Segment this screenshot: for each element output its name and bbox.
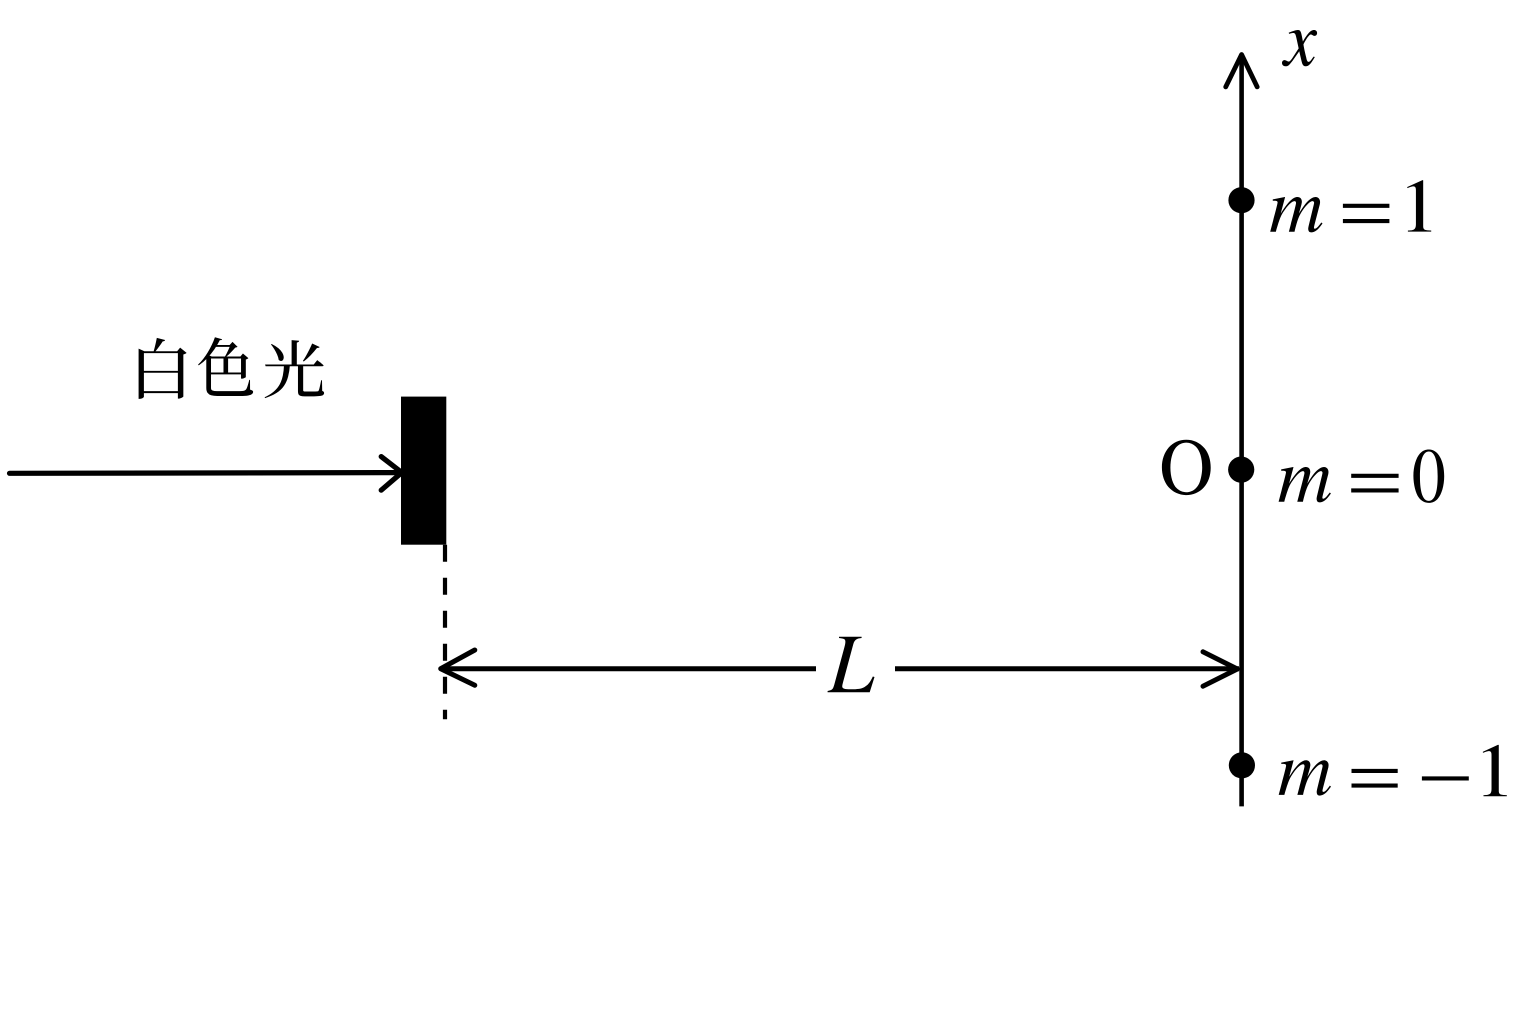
distance arrow L : left segment wire: [441, 666, 816, 671]
node m=-1 dot: [1229, 752, 1255, 778]
label m=-1 : equals sign: [1352, 771, 1398, 786]
screen axis line: [1239, 54, 1244, 806]
slit plate (black rectangle): [401, 397, 446, 545]
label m=1 : letter m: [1270, 197, 1322, 232]
label 白色光 (white light) : char 色: [198, 337, 253, 396]
label m=0 : equals sign: [1351, 476, 1398, 491]
distance arrow L : left arrowhead: [441, 650, 475, 685]
label 白色光 (white light) : char 光: [265, 340, 324, 398]
label m=-1 : letter m: [1279, 760, 1331, 795]
label x (axis name): [1282, 30, 1317, 66]
screen axis arrowhead (up): [1226, 55, 1258, 87]
label m=-1 : digit 1: [1483, 745, 1507, 796]
label m=1 : digit 1: [1407, 180, 1431, 231]
white light beam wire: [10, 470, 402, 476]
distance arrow L : right segment wire: [895, 666, 1239, 671]
label 白色光 (white light) : char 白: [139, 338, 187, 399]
distance arrow L : right arrowhead: [1203, 652, 1237, 686]
label L (distance): [828, 637, 875, 693]
dashed center line below slit: [443, 545, 447, 720]
label m=0 : letter m: [1279, 467, 1331, 502]
label O (origin): [1162, 440, 1211, 495]
white light beam arrowhead: [381, 457, 402, 491]
label m=-1 : minus sign: [1422, 776, 1469, 780]
node m=0 dot (origin O): [1228, 457, 1254, 483]
label m=1 : equals sign: [1343, 206, 1390, 221]
node m=1 dot: [1228, 187, 1254, 213]
label m=0 : digit 0: [1413, 450, 1444, 503]
